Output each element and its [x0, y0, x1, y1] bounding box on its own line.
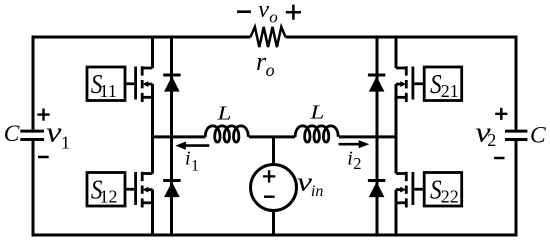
svg-text:C: C [530, 123, 546, 149]
svg-text:2: 2 [487, 130, 496, 150]
svg-text:L: L [309, 102, 324, 124]
svg-text:C: C [4, 121, 20, 147]
svg-text:1: 1 [61, 132, 70, 152]
svg-text:L: L [216, 103, 231, 125]
svg-text:o: o [269, 7, 278, 26]
svg-text:11: 11 [100, 81, 117, 101]
svg-text:i: i [185, 148, 191, 170]
svg-text:in: in [311, 183, 323, 200]
svg-text:12: 12 [100, 186, 118, 206]
svg-text:v: v [46, 118, 62, 149]
svg-text:22: 22 [441, 187, 459, 207]
svg-text:2: 2 [353, 154, 361, 173]
svg-text:o: o [266, 60, 275, 80]
svg-text:21: 21 [441, 81, 459, 101]
svg-text:v: v [258, 0, 269, 23]
svg-text:1: 1 [191, 157, 199, 174]
svg-text:i: i [347, 148, 353, 170]
